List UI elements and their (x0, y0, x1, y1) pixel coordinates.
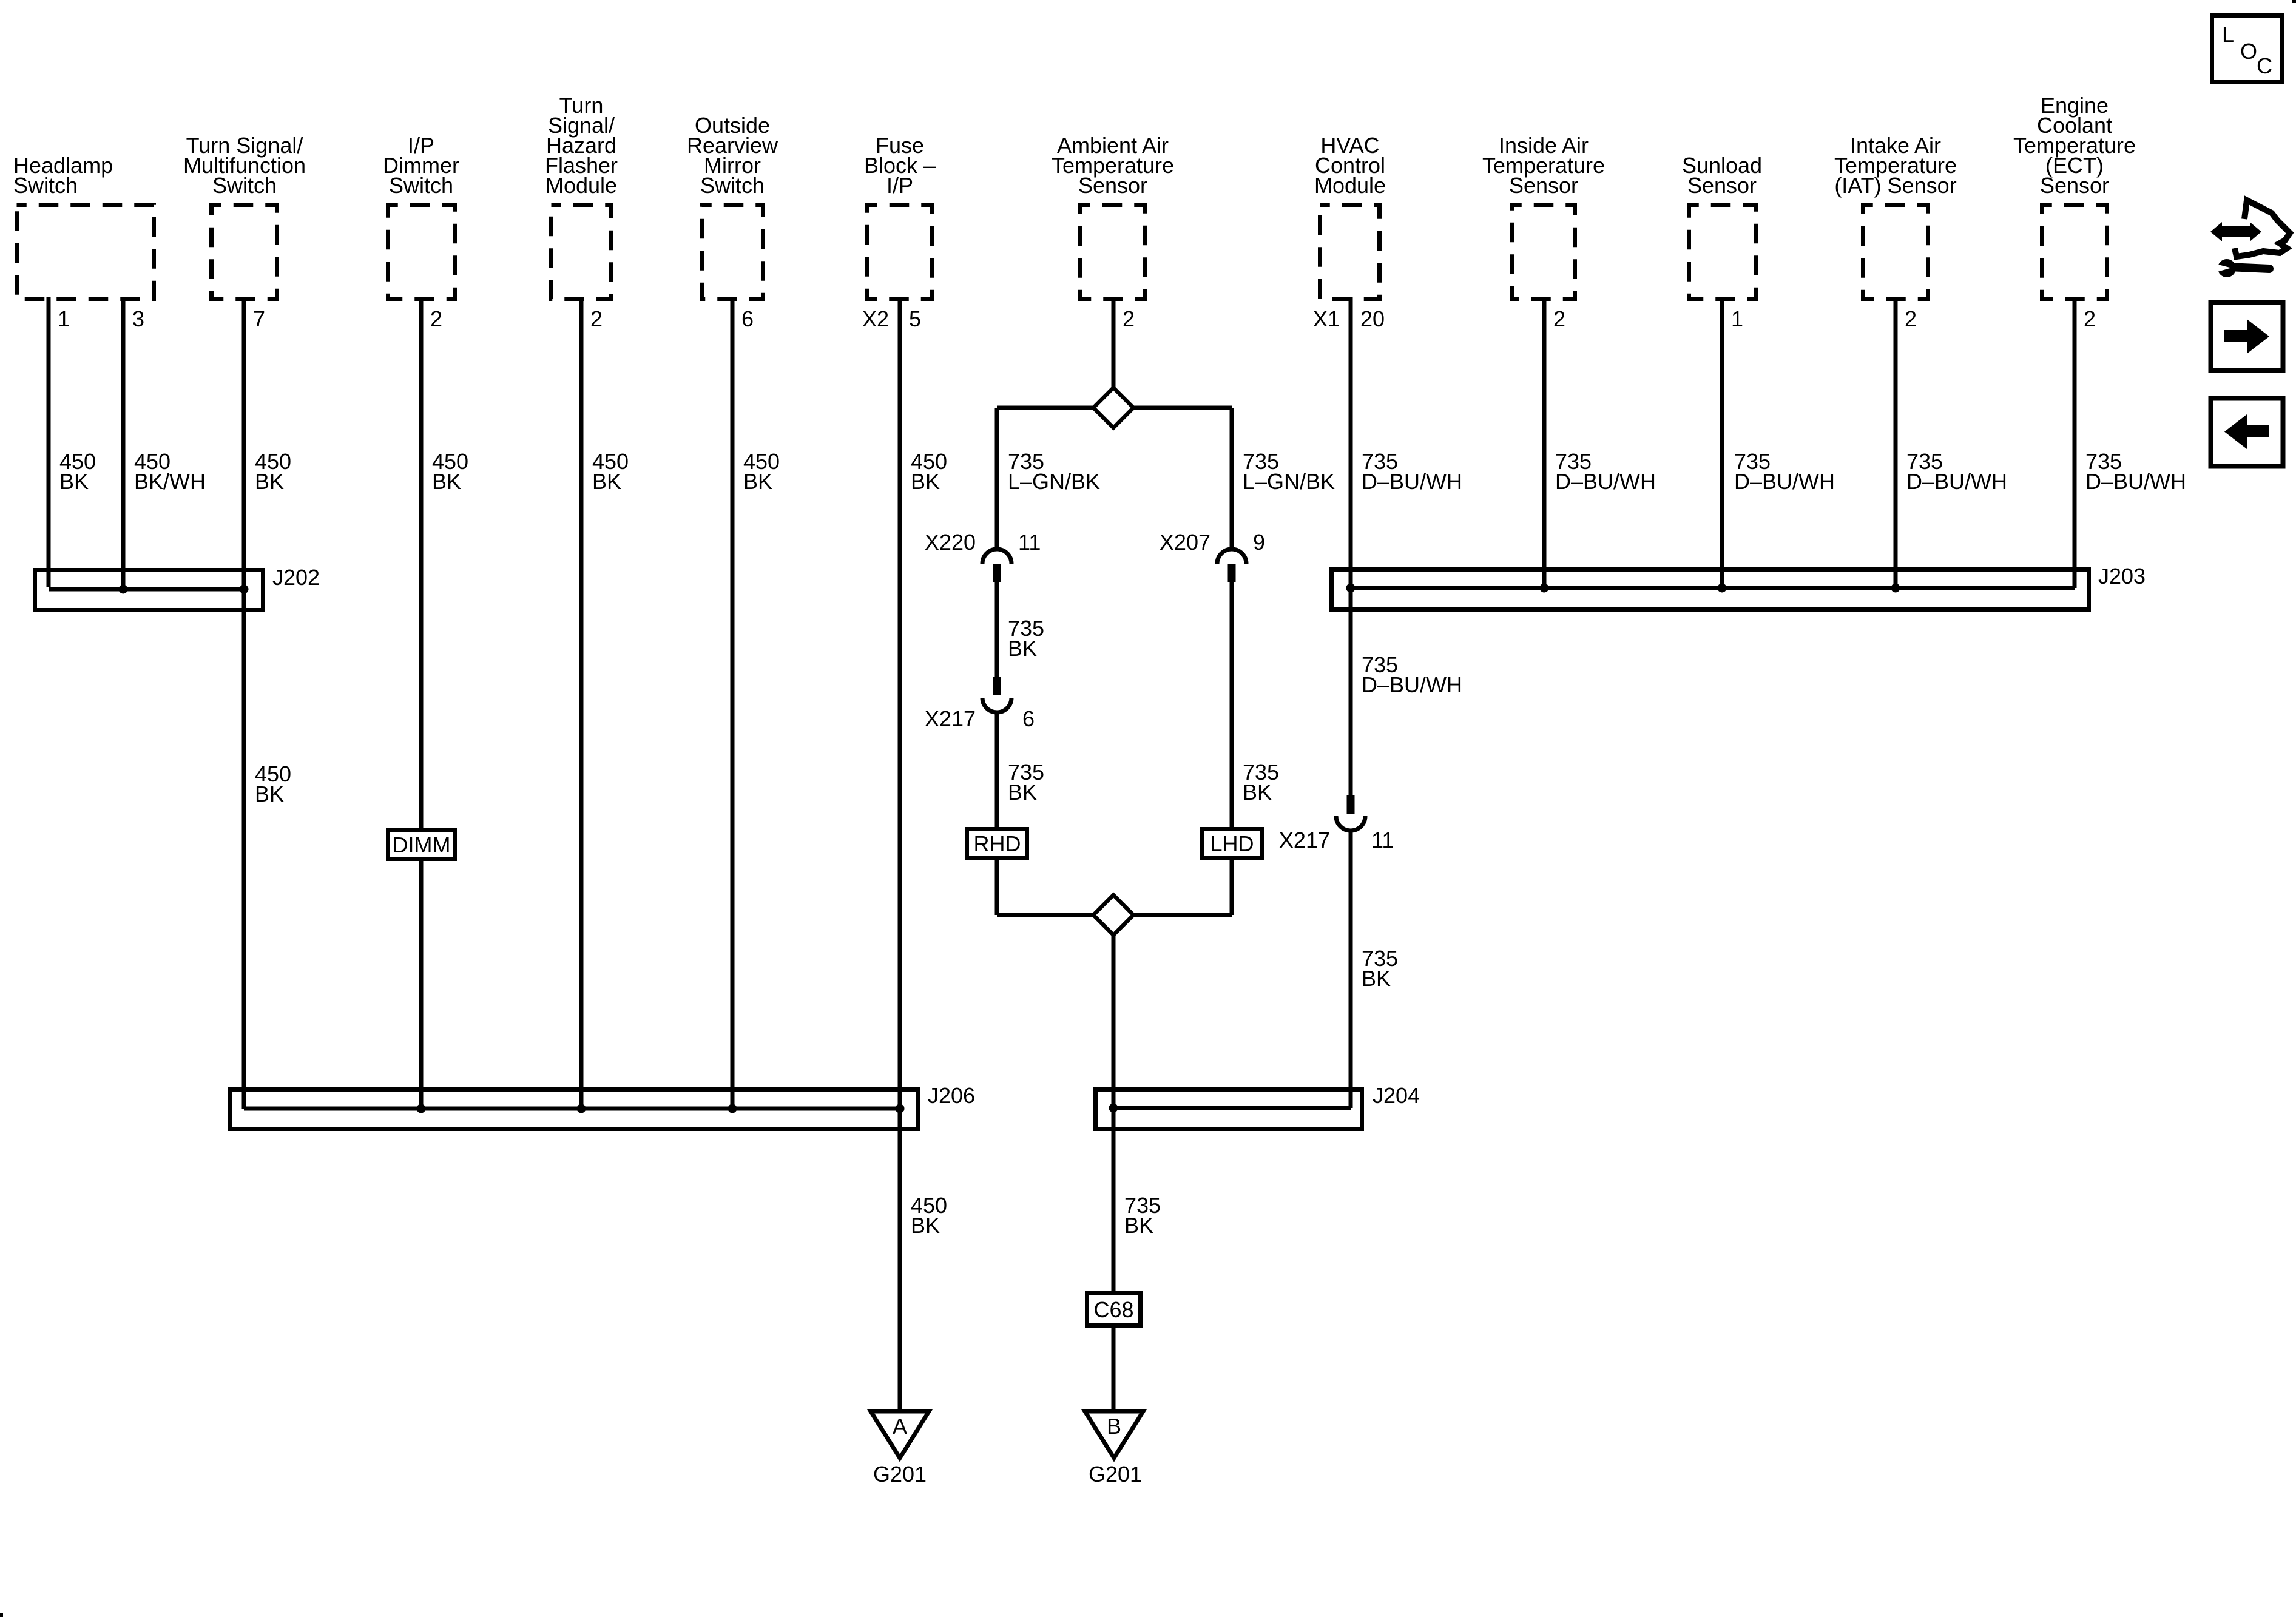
svg-text:X217: X217 (1279, 828, 1330, 852)
svg-text:(IAT) Sensor: (IAT) Sensor (1834, 173, 1956, 198)
component Outside Rearview Mirror Switch (dashed box, pin 6) (702, 205, 763, 299)
svg-text:L–GN/BK: L–GN/BK (1008, 469, 1100, 494)
wire inside air sensor pin 2 (735 D-BU/WH) to J203 (1542, 297, 1547, 588)
svg-text:Sensor: Sensor (1687, 173, 1757, 198)
wire IAT sensor pin 2 (735 D-BU/WH) to J203 (1894, 297, 1898, 588)
component I/P Dimmer Switch (dashed box, pin 2) (388, 205, 455, 299)
svg-text:D–BU/WH: D–BU/WH (1362, 672, 1462, 697)
junction bar J206 (230, 1090, 919, 1129)
wire lower splice through J204 to C68 (735 BK) (1112, 935, 1116, 1292)
wire ECT sensor pin 2 (735 D-BU/WH) to J203 (2073, 297, 2077, 588)
svg-text:BK: BK (59, 469, 89, 494)
wire fuse block pin 5 (450 BK) through J206 to ground A (898, 297, 902, 1412)
svg-text:B: B (1107, 1414, 1121, 1439)
svg-text:6: 6 (741, 306, 754, 331)
svg-text:2: 2 (1553, 306, 1565, 331)
svg-text:L–GN/BK: L–GN/BK (1243, 469, 1335, 494)
wire flasher pin 2 (450 BK) to J206 (579, 297, 584, 1109)
wire LHD to lower splice (1230, 860, 1234, 915)
wire headlamp pin 1 to J202 (47, 297, 51, 587)
svg-text:Sensor: Sensor (2040, 173, 2109, 198)
svg-text:9: 9 (1253, 530, 1265, 555)
component Sunload Sensor (dashed box, pin 1) (1689, 205, 1756, 299)
wire splice to right branch (1133, 406, 1232, 410)
svg-text:1: 1 (58, 306, 70, 331)
svg-text:C68: C68 (1093, 1297, 1133, 1322)
wire dimmer pin 2 (450 BK) down to DIMM (419, 297, 424, 829)
node J203 dot IAT (1891, 584, 1900, 593)
wire left branch down to X220 (995, 408, 999, 549)
node J204 splice dot (1109, 1104, 1118, 1113)
wire splice to left branch (997, 406, 1093, 410)
svg-text:Sensor: Sensor (1509, 173, 1578, 198)
component LHD option box (1202, 829, 1262, 858)
svg-text:G201: G201 (873, 1462, 927, 1487)
junction bar J202 (35, 570, 263, 610)
svg-text:BK: BK (911, 469, 940, 494)
ground triangle A (871, 1411, 929, 1458)
component RHD option box (967, 829, 1027, 858)
connector X207 pin 9 (in-line) (1217, 549, 1246, 564)
svg-text:BK: BK (255, 469, 284, 494)
svg-text:LHD: LHD (1210, 831, 1254, 856)
svg-text:11: 11 (1018, 530, 1041, 555)
svg-text:X207: X207 (1160, 530, 1210, 555)
svg-text:BK/WH: BK/WH (134, 469, 206, 494)
svg-text:J204: J204 (1373, 1083, 1420, 1108)
svg-text:Module: Module (545, 173, 617, 198)
wire sunload sensor pin 1 (735 D-BU/WH) to J203 (1720, 297, 1724, 588)
node J206 dot flasher (577, 1104, 586, 1113)
svg-text:BK: BK (592, 469, 621, 494)
svg-text:Module: Module (1314, 173, 1386, 198)
wire J203 internal bus (1351, 586, 2075, 590)
svg-text:2: 2 (590, 306, 603, 331)
svg-text:BK: BK (255, 781, 284, 806)
wire HVAC pin 20 (735 D-BU/WH) through J203 (1349, 297, 1353, 795)
svg-text:BK: BK (1362, 966, 1391, 991)
wire ambient sensor pin 2 to splice diamond (1112, 297, 1116, 390)
svg-text:Sensor: Sensor (1078, 173, 1147, 198)
wire dimmer below DIMM to J206 (419, 861, 424, 1109)
svg-text:J203: J203 (2098, 564, 2146, 589)
svg-text:J202: J202 (272, 565, 320, 590)
LOC legend box (2212, 16, 2283, 83)
svg-text:6: 6 (1022, 706, 1035, 731)
svg-text:DIMM: DIMM (393, 832, 451, 857)
svg-text:I/P: I/P (886, 173, 913, 198)
node J206 dot fuse wire (896, 1104, 905, 1113)
svg-text:5: 5 (909, 306, 921, 331)
component Fuse Block - I/P (dashed box, pins X2 / 5) (868, 205, 932, 299)
svg-text:D–BU/WH: D–BU/WH (1906, 469, 2007, 494)
svg-text:11: 11 (1371, 828, 1394, 852)
wire turn signal pin 7 (450 BK) to J202 (242, 297, 246, 589)
svg-text:BK: BK (1243, 780, 1272, 805)
svg-text:1: 1 (1731, 306, 1743, 331)
component Engine Coolant Temperature (ECT) Sensor (dashed box, pin 2) (2042, 205, 2107, 299)
component Turn Signal/Hazard Flasher Module (dashed box, pin 2) (552, 205, 612, 299)
node J202 splice dot pin7 (240, 585, 249, 594)
svg-text:BK: BK (911, 1213, 940, 1238)
svg-text:L: L (2222, 22, 2234, 47)
wire RHD to lower splice (995, 860, 999, 915)
svg-text:Switch: Switch (212, 173, 277, 198)
component Headlamp Switch (dashed box, pins 1 and 3) (17, 205, 154, 299)
wire right branch down to X207 (1230, 408, 1234, 549)
svg-text:Switch: Switch (389, 173, 453, 198)
component HVAC Control Module (dashed box, pins X1 / 20) (1320, 205, 1380, 299)
wire headlamp pin 3 (450 BK/WH) to J202 (121, 297, 126, 589)
connector X217 pin 6 (in-line) (993, 677, 1001, 695)
node J203 dot HVAC (1346, 584, 1356, 593)
svg-text:J206: J206 (928, 1083, 975, 1108)
svg-text:X220: X220 (925, 530, 976, 555)
svg-text:D–BU/WH: D–BU/WH (1555, 469, 1656, 494)
wire J206 internal bus (244, 1107, 904, 1111)
connector X217 pin 11 (in-line) (1347, 795, 1355, 814)
node J203 dot sunload (1718, 584, 1727, 593)
svg-text:BK: BK (432, 469, 461, 494)
svg-text:7: 7 (253, 306, 265, 331)
svg-text:2: 2 (2084, 306, 2096, 331)
wire 735 BK X217 to J204 (1349, 831, 1353, 1108)
junction bar J204 (1096, 1090, 1362, 1129)
junction bar J203 (1332, 570, 2089, 610)
svg-text:D–BU/WH: D–BU/WH (2085, 469, 2186, 494)
svg-text:BK: BK (1008, 636, 1037, 661)
svg-text:X217: X217 (925, 706, 976, 731)
svg-text:C: C (2257, 53, 2272, 78)
wire mirror pin 6 (450 BK) to J206 (731, 297, 735, 1109)
ground triangle B (1085, 1411, 1143, 1458)
wire 735 BK down to LHD (1230, 582, 1234, 829)
component Turn Signal/Multifunction Switch (dashed box, pin 7) (212, 205, 277, 299)
svg-text:O: O (2240, 39, 2257, 64)
wire 450 BK from J202 to J206 (turn signal pin 7) (242, 589, 246, 1109)
wire 735 BK down to RHD (995, 712, 999, 829)
page corner mark bottom left (0, 1613, 3, 1617)
splice diamond upper (ambient sensor) (1093, 388, 1133, 428)
legend box arrow right (2211, 303, 2283, 371)
svg-text:D–BU/WH: D–BU/WH (1734, 469, 1835, 494)
svg-text:2: 2 (1905, 306, 1917, 331)
node J203 dot inside air (1540, 584, 1549, 593)
component Intake Air Temperature (IAT) Sensor (dashed box, pin 2) (1863, 205, 1928, 299)
node J206 dot dimmer (417, 1104, 426, 1113)
svg-text:BK: BK (1124, 1213, 1153, 1238)
component DIMM in-line connector box (388, 830, 455, 859)
svg-text:X2: X2 (862, 306, 889, 331)
svg-text:Switch: Switch (700, 173, 765, 198)
svg-text:A: A (893, 1414, 907, 1439)
svg-text:G201: G201 (1089, 1462, 1142, 1487)
svg-text:2: 2 (1123, 306, 1135, 331)
node J206 dot mirror (728, 1104, 737, 1113)
svg-text:BK: BK (1008, 780, 1037, 805)
component Ambient Air Temperature Sensor (dashed box, pin 2) (1081, 205, 1146, 299)
svg-text:2: 2 (430, 306, 442, 331)
node J202 splice dot pin3 (119, 585, 128, 594)
svg-text:20: 20 (1360, 306, 1385, 331)
svg-text:D–BU/WH: D–BU/WH (1362, 469, 1462, 494)
wire J204 internal bus (1113, 1106, 1351, 1110)
wire C68 to ground B (1112, 1328, 1116, 1412)
svg-text:3: 3 (132, 306, 144, 331)
svg-text:X1: X1 (1313, 306, 1340, 331)
svg-text:Switch: Switch (13, 173, 78, 198)
legend box arrow left (2211, 399, 2283, 467)
component C68 in-line connector box (1087, 1293, 1141, 1326)
wire J202 internal bus (49, 587, 246, 592)
component Inside Air Temperature Sensor (dashed box, pin 2) (1512, 205, 1575, 299)
wire 735 BK between X220 and X217 (995, 582, 999, 677)
svg-text:RHD: RHD (974, 831, 1021, 856)
splice diamond lower (RHD/LHD join) (1093, 895, 1133, 935)
connector X220 pin 11 (in-line) (982, 549, 1011, 564)
svg-text:BK: BK (743, 469, 772, 494)
icon double arrow with connector and wrench (2210, 200, 2290, 277)
page corner mark top right (2292, 0, 2296, 3)
